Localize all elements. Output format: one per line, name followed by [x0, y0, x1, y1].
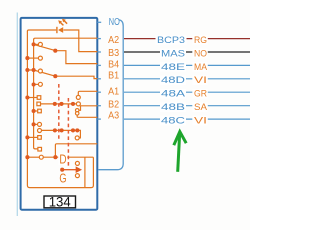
svg-text:48C: 48C	[161, 115, 185, 126]
lever travel arrow D-G	[62, 168, 80, 172]
junction	[75, 128, 79, 132]
junction	[32, 122, 36, 126]
pin A2 tick	[97, 38, 101, 40]
node NO tick	[97, 21, 101, 23]
svg-text:48D: 48D	[161, 75, 185, 86]
contact square	[37, 96, 41, 100]
svg-text:A2: A2	[108, 35, 119, 46]
contact	[38, 122, 42, 126]
junction	[25, 95, 29, 99]
switch blade 1	[34, 44, 56, 50]
wire rail2 vertical	[34, 39, 38, 149]
wire LED to B3 exit	[63, 30, 97, 52]
contact	[38, 129, 42, 133]
wire bus tick row58	[27, 57, 38, 59]
svg-text:A3: A3	[108, 111, 119, 122]
junction	[32, 68, 36, 72]
svg-text:D: D	[59, 153, 66, 167]
wire riser to no-pin exit	[55, 144, 97, 157]
junction	[53, 49, 57, 53]
LED arrow 1	[61, 23, 64, 26]
contact	[38, 56, 42, 60]
wire rail tick row44	[34, 43, 39, 45]
junction	[71, 128, 75, 132]
junction	[32, 42, 36, 46]
svg-text:48E: 48E	[161, 62, 185, 73]
contact	[39, 155, 43, 159]
pin labels	[108, 35, 120, 122]
junction	[59, 102, 63, 106]
mechanical linkage dashed 1	[58, 84, 60, 141]
junction	[25, 135, 29, 139]
wire 48E-MA	[124, 64, 250, 66]
svg-text:SA: SA	[194, 102, 208, 113]
connector comb NO	[98, 20, 123, 170]
wire rail tick row84	[34, 83, 39, 85]
wire labels circuit codes	[157, 35, 186, 126]
wire outer loop: bus left, bottom, right riser	[27, 31, 93, 188]
junction	[53, 74, 57, 78]
svg-text:VI: VI	[194, 115, 207, 126]
contact square	[38, 147, 42, 151]
component box 134 outline	[21, 18, 98, 210]
wire bus tick row157	[27, 156, 39, 158]
contact	[75, 161, 79, 165]
contact square	[37, 102, 41, 106]
junction	[53, 102, 57, 106]
mechanical linkage dashed 2	[67, 98, 69, 168]
svg-text:48B: 48B	[161, 102, 185, 113]
wire B2 pole line	[41, 103, 77, 105]
svg-text:BCP3: BCP3	[157, 35, 185, 46]
open contacts (squares)	[37, 96, 42, 151]
green highlight arrow	[174, 132, 186, 172]
pin B2 tick	[97, 105, 101, 107]
junction	[53, 155, 57, 159]
wire A3 contact to exit	[77, 115, 97, 117]
wire bus tick row70	[27, 69, 33, 71]
svg-text:B2: B2	[108, 99, 119, 110]
contact	[75, 174, 79, 178]
junction	[60, 168, 64, 172]
wire rail tick row111	[34, 110, 38, 112]
contact	[38, 42, 42, 46]
junction	[53, 128, 57, 132]
contact	[38, 69, 42, 73]
junction	[32, 82, 36, 86]
pin B3 tick	[97, 51, 101, 53]
contact square	[38, 136, 42, 140]
wire 48D-VI	[124, 78, 250, 80]
svg-text:48A: 48A	[161, 89, 186, 100]
pin A3 tick	[97, 118, 101, 120]
svg-text:B3: B3	[108, 48, 119, 59]
svg-text:NO: NO	[109, 17, 120, 28]
junction	[60, 128, 64, 132]
wire 48A-GR	[124, 91, 250, 93]
junction	[71, 102, 75, 106]
junction dots	[25, 42, 79, 171]
designator box 134	[44, 196, 76, 208]
contact	[75, 109, 79, 113]
junction	[32, 109, 36, 113]
contact	[75, 136, 79, 140]
wire A3 pole line	[41, 130, 80, 138]
svg-text:B4: B4	[108, 60, 120, 71]
contact	[76, 95, 80, 99]
wire label knockouts	[156, 35, 208, 125]
svg-text:134: 134	[49, 194, 71, 210]
wire bus tick row137	[27, 136, 37, 138]
adjacent harness edge (cropped, pale)	[16, 13, 18, 217]
pin B1 tick	[97, 78, 101, 80]
wire 48C-VI	[124, 118, 250, 120]
wire DG right drop	[84, 157, 86, 187]
svg-text:NO: NO	[194, 48, 207, 59]
contact	[76, 102, 80, 106]
wire B2 contact to exit	[79, 106, 98, 111]
pin B4 tick	[97, 64, 101, 66]
wire labels colour codes	[194, 35, 208, 126]
wire rail2 to A2 exit	[34, 38, 98, 39]
wire MAS-NO	[124, 51, 250, 53]
contact	[38, 82, 42, 86]
wire bus tick row97	[27, 97, 37, 99]
wire DG feed row157	[43, 156, 93, 158]
svg-text:GR: GR	[194, 89, 207, 100]
label D knockout	[58, 153, 67, 165]
LED cathode bar	[56, 27, 58, 33]
wire blade1 line to B4 exit	[55, 51, 97, 64]
junction	[25, 56, 29, 60]
junction	[25, 68, 29, 72]
LED D1	[57, 19, 67, 34]
svg-text:MAS: MAS	[161, 48, 185, 59]
pin ticks	[97, 39, 101, 120]
LED arrow 2	[64, 21, 67, 24]
switch blade 2	[34, 70, 56, 76]
svg-text:B1: B1	[108, 70, 119, 81]
wire blade2 line to B1 exit	[55, 76, 97, 78]
open contacts (circles)	[38, 42, 81, 177]
LED triangle	[58, 27, 63, 33]
pin A1 tick	[97, 91, 101, 93]
svg-text:VI: VI	[194, 75, 207, 86]
svg-text:RG: RG	[194, 35, 207, 46]
svg-text:G: G	[59, 171, 66, 185]
wire 48B-SA	[124, 105, 250, 107]
svg-text:A1: A1	[108, 87, 119, 98]
contact	[75, 112, 79, 116]
contact square	[38, 109, 42, 113]
wire top LED feed	[27, 30, 56, 31]
wire rail2 tick row124	[34, 123, 38, 125]
wire BCP3-RG	[124, 38, 250, 40]
junction	[25, 155, 29, 159]
svg-text:MA: MA	[194, 62, 208, 73]
wire A1 contact line	[78, 91, 97, 95]
